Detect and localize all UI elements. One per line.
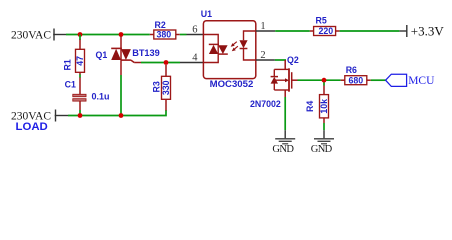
svg-text:Q1: Q1 — [96, 50, 108, 60]
svg-text:4: 4 — [192, 52, 198, 63]
svg-text:330: 330 — [161, 80, 171, 95]
wire Q1 MT1 to bottom rail — [120, 75, 122, 116]
port MCU flag — [386, 74, 435, 87]
svg-text:10k: 10k — [319, 99, 329, 114]
wire top rail — [66, 34, 150, 36]
junction at R1 top — [78, 32, 83, 37]
svg-text:6: 6 — [192, 24, 197, 35]
svg-text:Q2: Q2 — [287, 55, 299, 65]
junction at Q1 top — [119, 32, 124, 37]
svg-text:U1: U1 — [201, 9, 212, 19]
resistor R5 — [310, 15, 340, 36]
svg-text:680: 680 — [348, 75, 363, 85]
svg-text:R6: R6 — [346, 65, 357, 75]
resistor R1 — [63, 40, 86, 75]
wire R1 to C1 — [79, 74, 81, 77]
pin 4 wire to U1 — [180, 62, 203, 64]
svg-text:220: 220 — [318, 26, 333, 36]
wire C1 to bottom rail — [79, 110, 81, 116]
svg-text:R1: R1 — [63, 59, 73, 70]
transistor Q2 2N7002 — [250, 55, 299, 109]
wire R1 top lead — [79, 35, 81, 41]
svg-text:1: 1 — [260, 21, 265, 32]
svg-text:0.1u: 0.1u — [92, 92, 110, 102]
resistor R2 — [150, 20, 180, 40]
triac Q1 BT139 — [96, 37, 160, 76]
resistor R6 — [341, 65, 371, 85]
wire R4 to GND — [323, 123, 325, 130]
svg-text:230VAC: 230VAC — [11, 29, 51, 41]
wire bottom rail — [68, 110, 166, 116]
wire R6 to MCU — [371, 79, 386, 81]
svg-text:GND: GND — [272, 144, 294, 155]
svg-text:BT139: BT139 — [132, 48, 160, 58]
U1 light arrows — [231, 42, 238, 52]
svg-text:R4: R4 — [305, 101, 315, 112]
junction at Q1 bottom — [119, 113, 124, 118]
svg-text:2: 2 — [260, 50, 265, 61]
svg-text:C1: C1 — [65, 79, 76, 89]
wire R5 to +3.3V — [340, 30, 400, 32]
wire Q2 source to GND — [284, 97, 286, 130]
svg-text:+3.3V: +3.3V — [411, 24, 445, 39]
U1 inner LED — [239, 31, 255, 60]
wire gate rail — [141, 62, 180, 64]
svg-text:LOAD: LOAD — [16, 121, 48, 133]
svg-text:GND: GND — [311, 144, 333, 155]
ground GND1 — [272, 130, 295, 155]
wire U1 pin1 to R5 — [256, 30, 275, 32]
junction at R4 top — [322, 78, 327, 83]
wire U1 pin2 to Q2 drain — [256, 59, 275, 61]
resistor R3 — [152, 65, 171, 111]
svg-text:R5: R5 — [316, 15, 327, 25]
op-to coupler U1 MOC3052 box — [201, 9, 256, 90]
U1 inner triac — [203, 35, 227, 63]
wire R2 to U1 pin 6 — [180, 34, 187, 36]
port 230VAC LOAD bottom — [11, 110, 68, 133]
svg-text:MCU: MCU — [408, 75, 435, 87]
svg-text:2N7002: 2N7002 — [250, 99, 281, 109]
svg-text:380: 380 — [156, 29, 171, 39]
ground GND2 — [311, 130, 334, 155]
port +3.3V — [399, 24, 444, 39]
junction at R3 top — [164, 60, 169, 65]
svg-text:47: 47 — [75, 56, 85, 66]
svg-text:R2: R2 — [155, 20, 166, 30]
capacitor C1 — [65, 77, 110, 110]
junction at C1 bottom — [78, 113, 83, 118]
svg-text:MOC3052: MOC3052 — [210, 79, 254, 90]
resistor R4 — [305, 82, 329, 123]
port 230VAC top — [11, 29, 66, 42]
wire Q2 gate to junction — [298, 79, 341, 81]
